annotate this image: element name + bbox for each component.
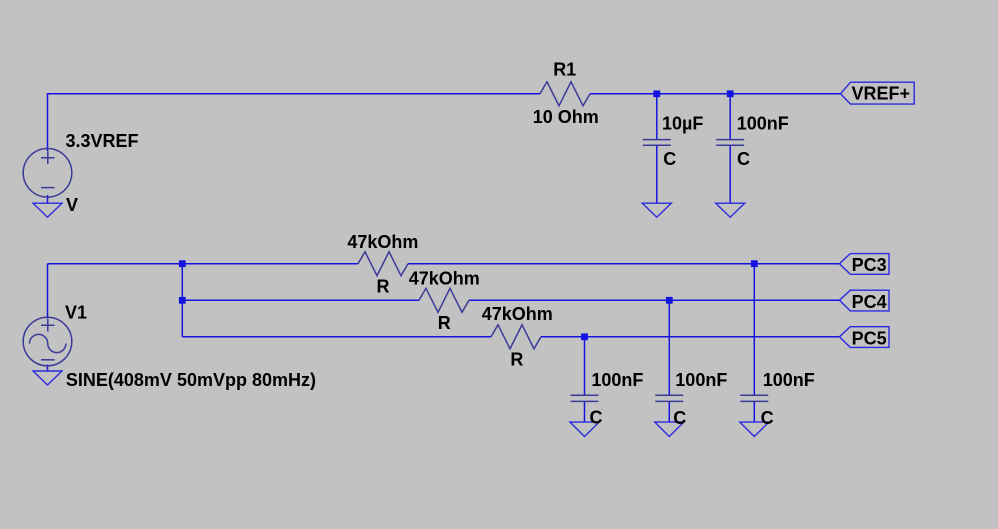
junction node line3 cap xyxy=(581,333,588,340)
junction node line2 split xyxy=(179,297,186,304)
junction node line1 cap xyxy=(751,260,758,267)
wire line2 right segment xyxy=(469,299,839,301)
svg-text:10µF: 10µF xyxy=(662,114,703,134)
junction node line1 split xyxy=(179,260,186,267)
voltage source V plus xyxy=(41,151,55,164)
ground below V source xyxy=(33,203,62,217)
svg-text:VREF+: VREF+ xyxy=(852,84,911,104)
junction node top rail C2 xyxy=(727,90,734,97)
svg-text:C: C xyxy=(663,149,676,169)
svg-text:C: C xyxy=(737,149,750,169)
svg-text:100nF: 100nF xyxy=(763,370,815,390)
svg-text:PC3: PC3 xyxy=(852,255,887,275)
svg-text:C: C xyxy=(761,408,774,428)
svg-text:PC4: PC4 xyxy=(852,292,887,312)
svg-text:V1: V1 xyxy=(65,303,87,323)
voltage source V1 sine wave xyxy=(30,334,66,352)
svg-text:100nF: 100nF xyxy=(675,370,727,390)
svg-text:PC5: PC5 xyxy=(852,328,887,348)
wire cap C3 upper stub xyxy=(584,337,586,395)
capacitor C1 plates xyxy=(643,140,671,146)
wire top rail right segment xyxy=(590,93,841,95)
capacitor C3 plates xyxy=(571,395,599,401)
resistor R4 zigzag xyxy=(491,325,541,349)
wire cap C1 lower stub xyxy=(656,145,658,203)
wire line2 left segment xyxy=(182,299,419,301)
svg-text:R: R xyxy=(510,350,523,370)
wire cap C2 lower stub xyxy=(729,145,731,203)
svg-text:SINE(408mV 50mVpp 80mHz): SINE(408mV 50mVpp 80mHz) xyxy=(66,370,316,390)
net flag PC5 outline xyxy=(839,327,889,348)
wire V1 to line1 xyxy=(47,264,49,319)
capacitor C4 plates xyxy=(655,395,683,401)
svg-text:100nF: 100nF xyxy=(737,114,789,134)
svg-text:100nF: 100nF xyxy=(591,370,643,390)
svg-text:R: R xyxy=(438,313,451,333)
ground below cap C4 xyxy=(655,422,684,436)
ground below cap C2 xyxy=(716,203,745,217)
wire junction vertical xyxy=(181,264,183,337)
wire cap C3 lower stub xyxy=(584,401,586,422)
svg-text:47kOhm: 47kOhm xyxy=(347,232,418,252)
net flag VREF+ xyxy=(841,82,915,104)
wire line3 left segment xyxy=(182,336,491,338)
wire cap C5 lower stub xyxy=(753,401,755,422)
wire line1 left segment xyxy=(48,263,359,265)
svg-text:47kOhm: 47kOhm xyxy=(482,304,553,324)
svg-text:R1: R1 xyxy=(553,60,576,80)
wire cap C4 upper stub xyxy=(668,300,670,395)
voltage source V minus xyxy=(41,187,55,189)
wire top rail left segment xyxy=(48,94,541,151)
ground below cap C5 xyxy=(740,422,769,436)
wire cap C4 lower stub xyxy=(668,401,670,422)
wire V1 to ground xyxy=(47,365,49,372)
ground below V1 xyxy=(33,371,62,385)
ground below cap C3 xyxy=(570,422,599,436)
wire cap C2 upper stub xyxy=(729,94,731,140)
junction node top rail C1 xyxy=(653,90,660,97)
svg-text:C: C xyxy=(673,408,686,428)
wire line1 right segment xyxy=(408,263,839,265)
net flag PC4 outline xyxy=(839,290,889,311)
voltage source V1 circle xyxy=(23,317,72,366)
voltage source V circle xyxy=(23,149,72,198)
capacitor C5 plates xyxy=(740,395,768,401)
resistor R2 zigzag xyxy=(358,252,408,276)
svg-text:10 Ohm: 10 Ohm xyxy=(533,107,599,127)
voltage source V1 minus xyxy=(41,359,55,361)
svg-text:3.3VREF: 3.3VREF xyxy=(66,131,139,151)
svg-text:47kOhm: 47kOhm xyxy=(409,268,480,288)
svg-text:C: C xyxy=(590,408,603,428)
capacitor C2 plates xyxy=(716,140,744,146)
svg-text:V: V xyxy=(66,195,78,215)
resistor R1 zigzag xyxy=(540,82,590,106)
svg-text:R: R xyxy=(377,277,390,297)
wire cap C5 upper stub xyxy=(753,264,755,396)
ground below cap C1 xyxy=(642,203,671,217)
resistor R3 zigzag xyxy=(419,288,469,312)
net flag PC3 outline xyxy=(839,254,889,275)
wire cap C1 upper stub xyxy=(656,94,658,140)
wire line3 right segment xyxy=(541,336,839,338)
junction node line2 cap xyxy=(666,297,673,304)
voltage source V1 plus xyxy=(41,319,55,332)
wire V source to ground xyxy=(47,195,49,203)
